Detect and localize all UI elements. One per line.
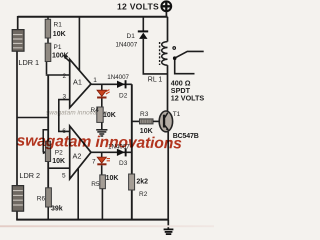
svg-text:12 VOLTS: 12 VOLTS — [171, 94, 205, 103]
op-amp A2 — [70, 126, 91, 179]
op-amp A1 — [70, 59, 91, 107]
wire: rail corner down to LDR1 — [17, 16, 19, 30]
relay switch lower contact — [173, 56, 177, 60]
ground (below R4) — [96, 130, 107, 136]
wire: coil bottom to transistor collector — [167, 65, 169, 112]
LDR 2 — [12, 186, 23, 212]
svg-text:10K: 10K — [52, 158, 65, 165]
resistor R1 — [45, 19, 50, 38]
relay contact stub down-right — [175, 60, 195, 74]
transistor T1 — [159, 111, 172, 132]
svg-text:R1: R1 — [54, 22, 63, 29]
svg-text:5: 5 — [62, 173, 66, 180]
wire: divider column down through junction to P2 — [47, 75, 49, 142]
svg-text:LDR 1: LDR 1 — [18, 58, 39, 67]
wire: LED2 branch down — [101, 152, 103, 157]
P1 wiper diagonal with arrow — [65, 57, 79, 70]
svg-text:T1: T1 — [173, 111, 181, 118]
wire: R4 to ground — [101, 122, 103, 129]
wire: LED2 to R5 — [101, 165, 103, 175]
svg-text:R3: R3 — [140, 111, 149, 118]
svg-text:39k: 39k — [51, 206, 63, 213]
svg-text:7: 7 — [92, 159, 96, 166]
svg-text:LDR 2: LDR 2 — [19, 171, 40, 180]
potentiometer P2 body — [45, 141, 50, 161]
supply terminal circle +12V — [161, 1, 171, 17]
resistor R2 (on node column) — [129, 174, 135, 190]
relay core dashed line — [159, 42, 161, 65]
relay coil loops — [162, 42, 168, 66]
svg-text:A2: A2 — [73, 152, 82, 161]
wire: LED1 to R4 — [101, 99, 103, 108]
diode D3 — [117, 148, 127, 156]
svg-text:2k2: 2k2 — [136, 179, 148, 186]
LED red D (A1 output) — [97, 90, 110, 99]
relay armature to pole line — [176, 51, 204, 57]
P2 wiper arrow — [43, 151, 47, 155]
diode D1 (flyback) with wires — [142, 17, 144, 31]
diode D2 — [117, 80, 127, 88]
svg-text:1: 1 — [93, 77, 97, 84]
wire: R3 to T1 base — [153, 120, 160, 122]
wire: P2 bottom to R6 top — [47, 161, 49, 188]
potentiometer P1 body — [45, 43, 51, 61]
wire: P2 wiper link — [43, 130, 48, 153]
wire: pin3 - pin6 bus — [59, 100, 70, 132]
wire: R1 bottom to P1 top — [47, 38, 49, 44]
svg-text:1N4007: 1N4007 — [107, 74, 129, 81]
wire: pin 2 horizontal into A1 — [46, 74, 70, 76]
resistor R5 — [100, 175, 106, 189]
svg-text:10K: 10K — [106, 175, 119, 182]
resistor R6 — [46, 188, 52, 207]
resistor R4 — [97, 107, 103, 122]
wire: A2 V- stub to ground rail — [77, 168, 79, 219]
svg-text:10K: 10K — [53, 31, 66, 38]
svg-text:R2: R2 — [139, 191, 148, 198]
svg-text:D3: D3 — [119, 160, 128, 167]
svg-text:2: 2 — [63, 73, 67, 80]
wire: pin 5 horizontal from divider to A2 — [48, 167, 69, 169]
LDR 1 — [12, 30, 24, 52]
svg-text:R6: R6 — [37, 196, 46, 203]
wire: A1 V+ stub to rail — [78, 17, 80, 71]
wire: D1 anode down and right to relay coil — [143, 39, 167, 74]
resistor R3 (horizontal) — [140, 119, 154, 124]
svg-text:D1: D1 — [127, 33, 136, 40]
relay switch upper contact — [173, 47, 176, 50]
relay RL1 coil line from rail — [167, 17, 169, 42]
wire: top +12V rail — [18, 16, 168, 18]
wire: R6 bottom to ground rail — [47, 207, 49, 220]
svg-text:3: 3 — [63, 94, 67, 101]
wire: ground stub below rail — [167, 220, 169, 229]
svg-text:A1: A1 — [73, 78, 82, 87]
wire: R3 tap from node column — [132, 120, 140, 122]
svg-text:D2: D2 — [119, 93, 128, 100]
wire: LDR1 bottom to LDR2 top (left column) — [16, 51, 18, 186]
svg-text:1N4007: 1N4007 — [116, 42, 138, 49]
wire: A2 output to node column — [91, 151, 132, 153]
LED red D (A2 output) — [97, 157, 110, 165]
svg-text:10K: 10K — [103, 112, 116, 119]
wire: bottom ground rail — [16, 219, 168, 221]
ground (bottom right) — [164, 229, 174, 234]
svg-text:R5: R5 — [91, 181, 100, 188]
wire: P1 bottom down to pin2 corner — [46, 61, 48, 74]
svg-text:12 VOLTS: 12 VOLTS — [117, 1, 159, 11]
svg-text:RL 1: RL 1 — [148, 77, 163, 84]
wire: R1 top to rail — [47, 17, 49, 20]
wire: T1 emitter down to ground rail — [167, 132, 169, 220]
wire: LDR junction horizontal to divider column — [17, 117, 48, 119]
svg-text:100K: 100K — [52, 53, 69, 60]
svg-text:swagatam innovations: swagatam innovations — [16, 133, 182, 153]
wire: A1 output to node column — [91, 83, 132, 85]
svg-text:P1: P1 — [54, 44, 62, 51]
svg-text:R4: R4 — [91, 107, 100, 114]
wire: R5 to ground rail — [101, 189, 103, 220]
wire: LED1 branch down to R4 — [101, 84, 103, 90]
wire: node column D2 junction down to ground rail — [131, 84, 133, 219]
svg-text:P2: P2 — [55, 150, 63, 157]
wire: LDR2 bottom to ground rail — [16, 211, 18, 220]
